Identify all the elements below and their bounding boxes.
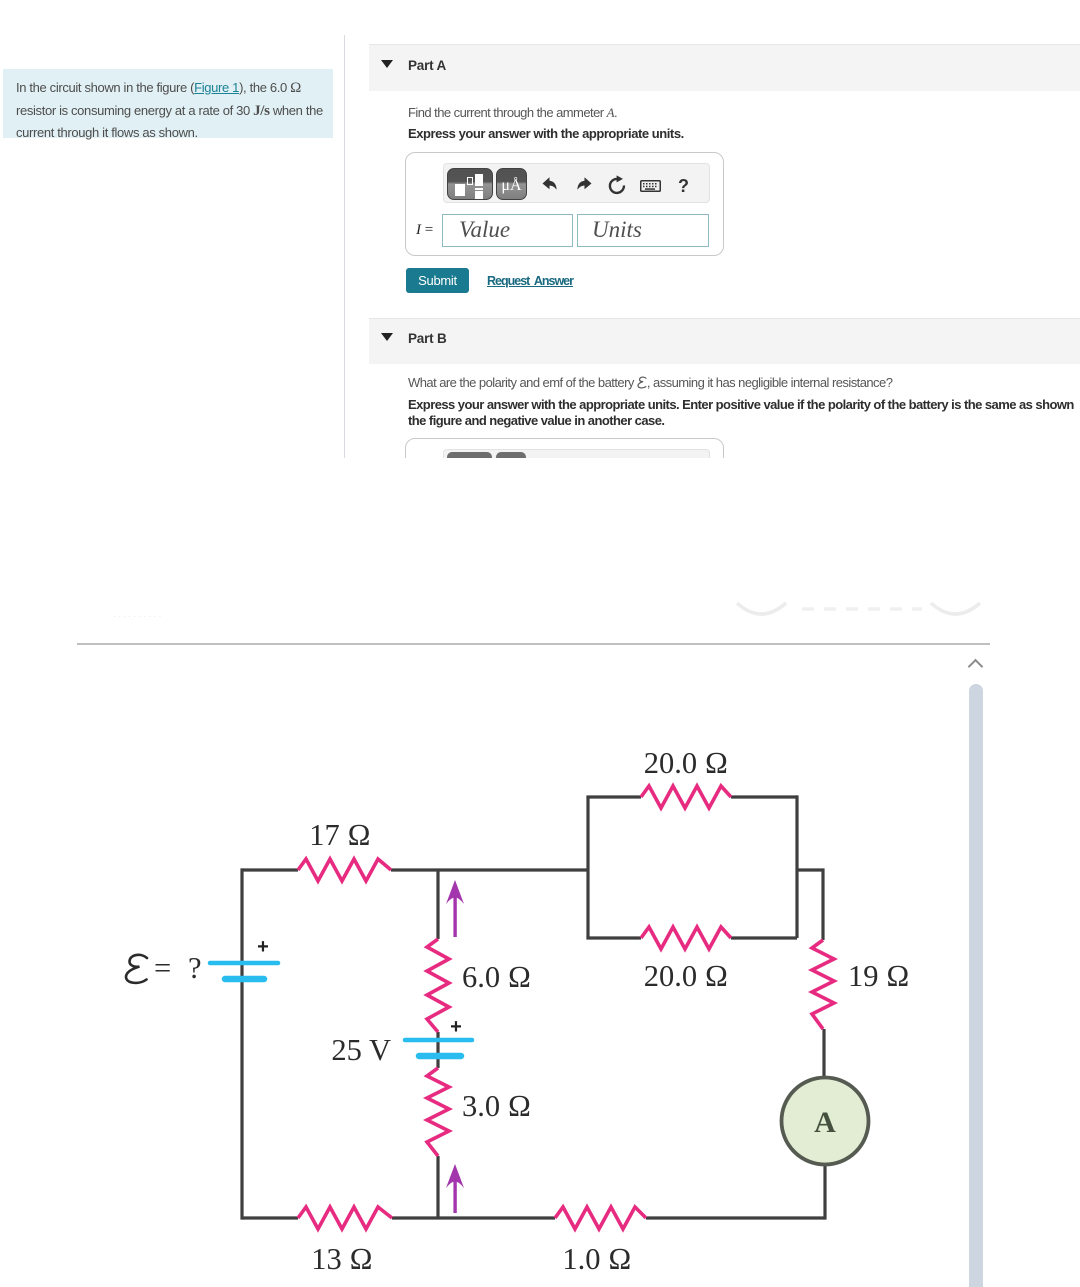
- svg-text:17 Ω: 17 Ω: [309, 818, 371, 852]
- svg-text:=: =: [154, 951, 171, 985]
- wire: bottom left: [242, 1216, 298, 1219]
- svg-text:6.0 Ω: 6.0 Ω: [462, 960, 531, 994]
- resistor 1.0 ohm: [555, 1207, 646, 1229]
- wire: bottom right: [646, 1216, 825, 1219]
- script E glyph of EMF label: [126, 955, 147, 983]
- parallel box bottom right: [731, 936, 797, 939]
- svg-text:3.0 Ω: 3.0 Ω: [462, 1089, 531, 1123]
- undo icon: [541, 176, 559, 194]
- resistor 6.0 ohm: [427, 939, 449, 1032]
- Part B question: [408, 375, 892, 390]
- uA button: [496, 168, 527, 200]
- parallel box right edge: [795, 795, 798, 938]
- Value input: [442, 214, 573, 247]
- wire: 19 ohm to ammeter: [822, 1029, 825, 1077]
- resistor 20.0 ohm bottom: [641, 927, 731, 949]
- white cutoff cover: [0, 458, 1080, 602]
- battery 25V plates: [405, 1040, 472, 1056]
- resistor 13 ohm: [298, 1207, 392, 1229]
- Part B header bar: [369, 318, 1080, 364]
- svg-text:20.0 Ω: 20.0 Ω: [644, 746, 728, 780]
- wire: bottom middle: [392, 1216, 555, 1219]
- svg-text:19 Ω: 19 Ω: [848, 959, 910, 993]
- redo icon: [575, 176, 593, 194]
- reset icon: [607, 175, 627, 195]
- template button: [447, 168, 493, 200]
- wire: middle branch lower: [436, 1156, 439, 1218]
- faint leftover row: [113, 608, 198, 615]
- svg-text:20.0 Ω: 20.0 Ω: [644, 959, 728, 993]
- wire: left vertical: [240, 868, 243, 1219]
- resistor 17 ohm: [298, 859, 391, 881]
- resistor 3.0 ohm: [427, 1068, 449, 1156]
- svg-text:+: +: [257, 936, 269, 958]
- parallel box top edge right: [731, 795, 797, 798]
- wire: middle branch through battery: [436, 1032, 439, 1068]
- wire: top middle horizontal: [391, 868, 588, 871]
- Units input: [577, 214, 709, 247]
- wire: top left horizontal: [242, 868, 298, 871]
- question mark: [678, 176, 689, 197]
- left problem statement box: [3, 69, 333, 138]
- svg-text:A: A: [814, 1106, 836, 1139]
- Part A question: [408, 105, 617, 121]
- Part A header bar: [369, 44, 1080, 91]
- svg-text:+: +: [450, 1016, 462, 1038]
- wire: ammeter to bottom: [823, 1166, 826, 1220]
- resistor 19 ohm: [812, 940, 834, 1029]
- ammeter A: [782, 1078, 869, 1165]
- Request Answer link: [487, 274, 573, 288]
- scrollbar thumb: [969, 684, 983, 1287]
- parallel box top edge left: [586, 795, 641, 798]
- current arrow upper: [446, 880, 464, 937]
- svg-text:25 V: 25 V: [331, 1033, 391, 1067]
- Submit button: [406, 268, 469, 293]
- parallel box bottom left: [586, 936, 641, 939]
- horizontal divider above figure: [77, 643, 990, 645]
- Part B partial answer module: [405, 438, 724, 470]
- faint arcs and dashes: [730, 595, 990, 630]
- toolbar: [443, 163, 710, 203]
- keyboard icon: [640, 180, 661, 192]
- current arrow lower: [446, 1164, 464, 1213]
- parallel box left edge: [586, 797, 589, 938]
- resistor 20.0 ohm top: [641, 786, 731, 808]
- svg-text:?: ?: [188, 951, 202, 985]
- svg-text:13 Ω: 13 Ω: [311, 1242, 373, 1276]
- battery EMF plates: [210, 963, 278, 979]
- stub to 19 ohm: [797, 870, 823, 940]
- scrollbar up chevron: [968, 659, 984, 675]
- vertical divider: [344, 35, 345, 459]
- I = label: [416, 221, 433, 239]
- Part A answer module: [405, 152, 724, 256]
- svg-text:1.0 Ω: 1.0 Ω: [562, 1242, 631, 1276]
- wire: middle branch upper: [436, 870, 439, 939]
